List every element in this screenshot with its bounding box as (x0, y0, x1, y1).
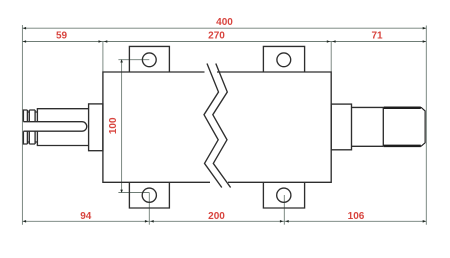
arrow 400 right (423, 27, 426, 30)
left flange (89, 104, 103, 151)
arrow 59 right (99, 40, 102, 43)
extension line bottom-right hole (200/106 junction) (283, 195, 285, 225)
hole top-right (277, 53, 291, 67)
break line right (213, 64, 231, 188)
arrow 270 left (104, 40, 107, 43)
arrow 100 bottom (120, 190, 123, 193)
ring 1 left end (23, 110, 27, 144)
right end block (383, 108, 425, 147)
break line left (204, 64, 222, 188)
rod slot (23, 122, 86, 132)
dimension line 59/270/71 (22, 41, 426, 43)
hole top-left (142, 53, 156, 67)
extension line right (425, 26, 427, 225)
groove 1 (27, 112, 29, 142)
extension line body-right (270/71 junction) (330, 42, 332, 73)
arrow 59 left (23, 40, 26, 43)
extension line body-left (59/270 junction) (102, 42, 104, 73)
svg-text:71: 71 (371, 31, 383, 42)
extension line left (21, 25, 23, 225)
leader bottom hole center (118, 192, 149, 194)
svg-text:400: 400 (216, 17, 233, 28)
svg-text:59: 59 (56, 31, 68, 42)
right shaft middle (352, 107, 384, 146)
dimension line 100 vertical (121, 59, 123, 192)
svg-text:270: 270 (208, 31, 225, 42)
ring 2 (29, 110, 35, 144)
mounting tab bottom-left (129, 182, 169, 208)
right collar (331, 104, 351, 150)
svg-text:94: 94 (80, 211, 92, 222)
arrow 106 left (285, 220, 288, 223)
arrow 270 right (327, 40, 330, 43)
arrow 94 right (145, 220, 148, 223)
dimension line 400 (22, 27, 426, 29)
dimension line 94/200/106 (22, 220, 426, 222)
groove 2 (35, 112, 37, 142)
arrow 400 left (23, 27, 26, 30)
mounting tab top-right (263, 46, 304, 72)
arrow 200 left (150, 220, 153, 223)
arrow 71 left (332, 40, 335, 43)
left rod (37, 109, 88, 146)
arrow 106 right (423, 220, 426, 223)
mounting tab top-left (129, 46, 169, 72)
arrow 71 right (423, 40, 426, 43)
svg-text:200: 200 (208, 211, 225, 222)
leader top hole center (118, 59, 149, 61)
svg-text:100: 100 (108, 117, 119, 134)
arrow 100 top (120, 59, 123, 62)
svg-text:106: 106 (348, 211, 365, 222)
extension line bottom-left hole (94/200 junction) (148, 193, 150, 225)
body (cylinder) with break gaps (103, 72, 331, 182)
mounting tab bottom-right (263, 182, 304, 208)
hole bottom-right (277, 188, 291, 202)
arrow 200 right (280, 220, 283, 223)
arrow 94 left (23, 220, 26, 223)
hole bottom-left (142, 188, 156, 202)
